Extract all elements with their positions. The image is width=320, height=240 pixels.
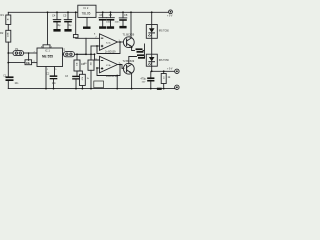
wire IC1 top pins	[43, 12, 50, 48]
label opamp1 minus	[101, 37, 104, 40]
wire top rail left	[8, 11, 78, 13]
node junction (86,54.3)	[85, 53, 87, 55]
wire divider to rail	[116, 76, 118, 89]
node junction (75.7,12.3)	[75, 11, 77, 13]
wire IC1 bottom pin 5	[54, 67, 56, 76]
node junction (110.5,12.3)	[110, 11, 112, 13]
wire rail to D1	[151, 12, 153, 24]
transistor T1	[123, 37, 134, 48]
wire D1 to D2	[151, 38, 153, 54]
voltage regulator IC2 78L05	[78, 5, 96, 17]
capacitor C8	[122, 12, 124, 26]
wire R6 riser	[75, 12, 77, 34]
wire opamp1 inverting input	[85, 38, 87, 54]
svg-text:100n: 100n	[106, 22, 112, 24]
wire node B riser	[90, 46, 92, 60]
capacitor C4 electrolytic	[53, 12, 61, 29]
wire opamp1 noninverting input	[91, 45, 100, 47]
node junction (163.7,71.3)	[163, 70, 165, 72]
svg-text:C6: C6	[100, 13, 104, 17]
svg-text:NE 555: NE 555	[42, 54, 53, 58]
node junction (131,12.3)	[130, 11, 132, 13]
svg-text:IC 2: IC 2	[84, 6, 89, 10]
svg-text:IC 1: IC 1	[45, 48, 50, 52]
node junction (8.3,53)	[7, 52, 9, 54]
svg-text:C4: C4	[52, 13, 56, 17]
svg-text:+ 9 V: + 9 V	[167, 68, 173, 70]
svg-text:T2 BC639: T2 BC639	[123, 59, 135, 63]
Elektor number box	[94, 81, 104, 88]
resistor R10	[163, 71, 165, 88]
capacitor C9 electrolytic 470u	[150, 71, 152, 88]
wire P1 to IC1	[24, 52, 37, 54]
wire D2 to minus wire	[151, 66, 153, 71]
wire T2 collector	[129, 57, 137, 64]
svg-text:+ 9 V: + 9 V	[167, 15, 173, 17]
ground blob bottom right	[157, 88, 162, 90]
op-amp IC3b	[100, 56, 118, 73]
wire opamp2 top input	[95, 54, 100, 60]
wire T2 emitter to rail	[130, 73, 133, 89]
resistor R2	[6, 30, 11, 42]
wire left column vertical	[7, 12, 9, 88]
svg-text:IRS TO50: IRS TO50	[159, 60, 170, 62]
wire R5 bottom	[81, 86, 83, 89]
resistor R1	[6, 15, 11, 25]
node junction (8.3,62.6)	[7, 62, 9, 64]
node junction (68,12.3)	[67, 11, 69, 13]
svg-text:10µ: 10µ	[68, 25, 73, 27]
wire R4 to C3	[76, 71, 78, 76]
svg-text:IC3b: IC3b	[106, 65, 111, 67]
svg-text:C8: C8	[124, 13, 128, 17]
svg-text:R2: R2	[0, 31, 4, 35]
svg-text:100n: 100n	[115, 22, 121, 24]
capacitor C7	[110, 12, 112, 26]
svg-text:IC3a: IC3a	[106, 42, 111, 44]
wire IC2 ground pin	[86, 17, 88, 26]
wire R6 to op-amp input	[76, 37, 100, 40]
svg-text:2x BD139: 2x BD139	[105, 51, 116, 54]
svg-text:C7: C7	[109, 13, 113, 17]
node junction (131.6,47.3)	[131, 46, 133, 48]
node junction (120,64.5)	[119, 64, 121, 66]
resistor R7	[88, 60, 94, 70]
wire T1 emitter node	[131, 46, 135, 50]
node junction (76,88.6)	[75, 88, 77, 90]
svg-text:470µ: 470µ	[141, 78, 147, 81]
wire to terminal 0V	[174, 87, 176, 90]
capacitor C5 electrolytic	[64, 12, 72, 29]
node junction (123,12.3)	[122, 11, 124, 13]
node junction (91,54.3)	[90, 53, 92, 55]
wire feedback 2	[118, 65, 125, 69]
resistor R3	[25, 60, 32, 65]
label opamp1 plus	[101, 45, 104, 48]
resistor R5	[80, 74, 86, 85]
node junction (47.5,12.3)	[47, 11, 49, 13]
node junction (151.7,71.3)	[151, 70, 153, 72]
wire R8 to D1 cathode	[143, 44, 145, 57]
wire minus rail	[152, 70, 175, 72]
op-amp IC3a	[100, 34, 118, 51]
node junction (97,68)	[96, 67, 98, 69]
ground bar IC2	[83, 27, 91, 29]
terminal battery mid	[175, 69, 179, 73]
wire R7 bottom to rail	[90, 70, 92, 88]
wire feedback 1	[118, 41, 125, 43]
wire node B junction	[77, 53, 95, 55]
node junction (150.8,88.6)	[150, 88, 152, 90]
node junction (82.4,88.6)	[82, 88, 84, 90]
trimmer P1	[13, 51, 24, 56]
wire R3 to IC1	[32, 62, 37, 64]
resistor R6	[73, 35, 78, 38]
node junction (91,88.6)	[90, 88, 92, 90]
svg-text:10µ: 10µ	[57, 25, 62, 27]
wire IC1 bottom pin 1	[45, 67, 47, 89]
wire node 555 left upper	[8, 52, 13, 54]
wire link pins 2-6	[28, 53, 30, 60]
resistor R4	[74, 60, 80, 71]
node junction (94.5,54.3)	[94, 53, 96, 55]
terminal +9V	[169, 10, 173, 14]
wire C3 to rail	[75, 79, 77, 89]
wire node A to R4	[76, 54, 78, 60]
node junction (28.6,53)	[28, 52, 30, 54]
wire C2 to rail	[53, 79, 55, 88]
node junction (77,54.3)	[76, 53, 78, 55]
node junction (46,88.6)	[45, 88, 47, 90]
IR LED D1	[146, 25, 157, 39]
wire R9 to D2	[144, 56, 146, 58]
svg-text:P1: P1	[15, 47, 19, 51]
svg-text:X1: X1	[62, 48, 66, 52]
svg-text:IRS TO50: IRS TO50	[159, 30, 170, 32]
node junction (53.5,88.6)	[53, 88, 55, 90]
capacitor C2	[50, 75, 58, 79]
node junction (131.6,88.6)	[131, 88, 133, 90]
wire bottom rail	[8, 88, 174, 90]
capacitor C3	[72, 76, 80, 80]
wire T1 collector to rail	[130, 12, 132, 38]
capacitor X1 ceramic	[64, 52, 75, 57]
node junction (151.7,12.3)	[151, 11, 153, 13]
wire opamp2 bottom input	[97, 67, 100, 69]
svg-text:78L05: 78L05	[82, 12, 91, 16]
node junction (117.2,75.5)	[116, 75, 118, 77]
label opamp2 minus	[101, 59, 104, 62]
capacitor C1	[6, 76, 14, 81]
capacitor C6	[102, 12, 104, 26]
op-amp IC1 NE555	[37, 48, 63, 67]
svg-text:934012-11: 934012-11	[106, 75, 118, 78]
node junction (57,12.3)	[56, 11, 58, 13]
wire T2 base jog	[122, 67, 124, 69]
transistor T2	[123, 63, 134, 74]
svg-text:10k: 10k	[26, 62, 31, 65]
terminal 0V	[175, 85, 179, 89]
node junction (102.7,12.3)	[102, 11, 104, 13]
wire top rail right	[96, 11, 169, 13]
wire node A	[75, 53, 87, 55]
wire lower branch	[8, 62, 25, 64]
node junction (120,42)	[119, 41, 121, 43]
node junction (117.2,88.6)	[116, 88, 118, 90]
junction dots	[7, 11, 164, 89]
wire R5 top	[77, 71, 82, 74]
wire IC1 right pin	[63, 53, 64, 55]
svg-text:T1 BC639: T1 BC639	[123, 33, 135, 37]
resistor R8	[136, 48, 144, 52]
IR LED D2	[146, 54, 157, 66]
svg-text:16V: 16V	[142, 81, 146, 83]
node junction (163.7,88.6)	[163, 88, 165, 90]
svg-text:C5: C5	[63, 13, 67, 17]
label opamp2 plus	[101, 67, 104, 70]
resistor R9	[137, 54, 145, 58]
svg-text:R1: R1	[1, 13, 5, 17]
node junction (97,46)	[96, 45, 98, 47]
